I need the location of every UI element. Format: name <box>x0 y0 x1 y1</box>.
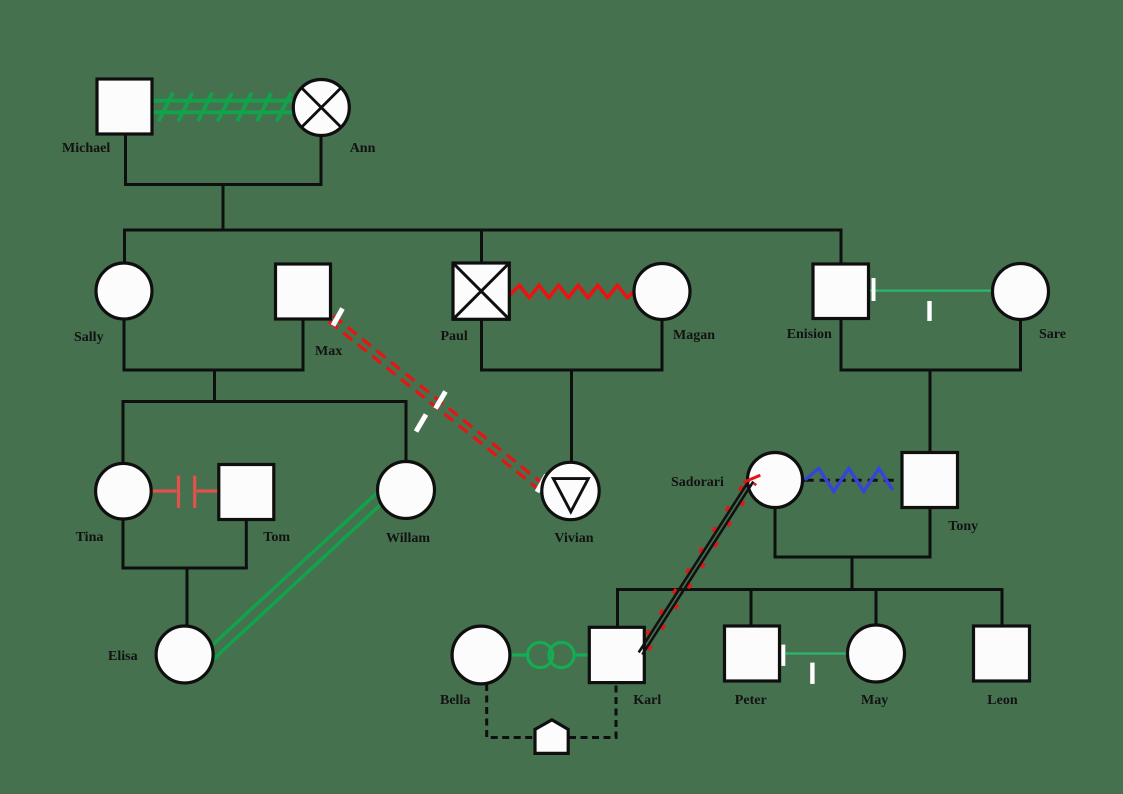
wire: drop to Willam <box>405 400 408 463</box>
relationship: Sadorari-Karl red dashed overlay <box>636 478 755 656</box>
separation white tick 1 <box>781 645 785 666</box>
person Tony (square) <box>902 453 958 508</box>
relationship: Michael-Ann green hatched band <box>152 93 295 122</box>
svg-text:Tony: Tony <box>948 519 978 534</box>
wire: Tom descent <box>245 520 248 568</box>
svg-text:Sally: Sally <box>74 330 104 345</box>
wire: drop to Paul <box>480 229 483 266</box>
wire: Michael+Ann couple bar <box>124 183 323 186</box>
wire: drop to Leon <box>1001 588 1004 627</box>
wire: adoption dashed Bella to pentagon <box>487 684 534 738</box>
wire: Max descent <box>302 319 305 370</box>
svg-text:Tina: Tina <box>76 530 104 545</box>
wire: Enision descent <box>840 319 843 370</box>
separation white tick 2 <box>810 663 814 684</box>
wire: Tina+Tom couple bar <box>122 567 248 570</box>
wire: drop to May <box>875 588 878 626</box>
wire: generation bar gen4 <box>618 588 1003 591</box>
person Magan (circle) <box>634 264 690 320</box>
svg-text:Enision: Enision <box>787 327 832 342</box>
pentagon adopted-child symbol <box>535 720 568 754</box>
wire: generation bar gen2 <box>125 229 842 232</box>
wire: drop to Enision <box>840 229 843 265</box>
relationship: Willam-Elisa green double line <box>206 492 386 660</box>
wire: Sally+Max family drop <box>213 369 216 404</box>
Sadorari-Karl red solid tip <box>744 475 761 482</box>
person Bella (circle) <box>452 626 510 684</box>
wire: generation bar Sally children <box>123 400 408 403</box>
wire: drop to Sally <box>123 229 126 265</box>
relationship: Sadorari-Tony blue zigzag <box>805 468 893 491</box>
svg-text:Karl: Karl <box>633 693 661 708</box>
person Max (square) <box>276 264 331 319</box>
person Leon (square) <box>974 626 1030 681</box>
wire: drop to Vivian <box>570 369 573 463</box>
svg-text:Leon: Leon <box>987 693 1018 708</box>
wire: drop to Tina <box>122 400 125 464</box>
wire: Sally+Max couple bar <box>123 369 305 372</box>
person Sare (circle) <box>993 264 1049 320</box>
svg-text:Ann: Ann <box>350 141 376 156</box>
person Elisa (circle) <box>156 626 213 683</box>
svg-text:Willam: Willam <box>386 531 430 546</box>
person Sally (circle) <box>96 263 152 319</box>
person Karl (square) <box>589 627 644 682</box>
wire: Sadorari+Tony family drop <box>851 556 854 592</box>
relationship: Tina-Tom cutoff symbol <box>152 476 219 508</box>
wire: Magan descent <box>661 320 664 371</box>
relationship: Sadorari-Tony black dashed line <box>804 479 898 482</box>
wire: Paul descent <box>480 319 483 370</box>
wire: drop to Peter <box>750 588 753 627</box>
person May (circle) <box>848 625 905 682</box>
divorce white ticks on Max-Vivian line <box>333 309 547 493</box>
relationship: Sadorari-Karl black double line <box>639 479 754 654</box>
person Peter (square) <box>725 626 780 681</box>
svg-text:Bella: Bella <box>440 693 470 708</box>
person Enision (square) <box>813 264 869 319</box>
wire: Enision+Sare couple bar <box>840 369 1023 372</box>
wire: drop to Tony <box>929 369 932 454</box>
wire: adoption dashed pentagon to Karl <box>569 683 616 738</box>
wire: Sadorari descent <box>774 508 777 558</box>
person Tom (square) <box>219 465 274 520</box>
relationship: Peter-May green line <box>780 652 848 654</box>
person Tina (circle) <box>96 463 152 519</box>
wire: Sare descent <box>1019 320 1022 371</box>
svg-text:Sare: Sare <box>1039 327 1066 342</box>
svg-text:Peter: Peter <box>735 693 767 708</box>
svg-text:Vivian: Vivian <box>554 531 593 546</box>
svg-text:Sadorari: Sadorari <box>671 475 724 490</box>
separation white tick 1 <box>872 278 876 301</box>
svg-text:Elisa: Elisa <box>108 649 138 664</box>
person Willam (circle) <box>378 462 435 519</box>
relationship: Bella-Karl green line <box>510 653 589 656</box>
svg-text:Tom: Tom <box>263 530 290 545</box>
person Michael (square) <box>97 79 152 134</box>
wire: Tony descent <box>929 508 932 558</box>
union rings <box>528 642 553 667</box>
svg-text:Paul: Paul <box>441 329 468 344</box>
svg-text:Magan: Magan <box>673 328 715 343</box>
person Vivian (pregnancy circle) <box>542 462 599 519</box>
wire: drop to Karl <box>616 588 619 628</box>
wire: Tina descent <box>122 519 125 568</box>
relationship: Enision-Sare green line <box>869 290 993 292</box>
wire: Paul+Magan couple bar <box>480 369 664 372</box>
relationship: Paul-Magan red zigzag <box>509 285 634 297</box>
wire: drop to Elisa <box>186 567 189 628</box>
relationship: Max-Vivian red dashed double line <box>329 316 544 490</box>
svg-text:May: May <box>861 693 888 708</box>
wire: Michael+Ann family drop <box>222 183 225 232</box>
person Paul (deceased square) <box>453 263 509 319</box>
person Ann (deceased circle) <box>293 80 349 136</box>
person Sadorari (circle) <box>748 453 803 508</box>
svg-text:Michael: Michael <box>62 141 110 156</box>
wire: Ann descent <box>320 134 323 185</box>
wire: Sadorari+Tony couple bar <box>774 556 932 559</box>
wire: Sally descent <box>123 319 126 370</box>
svg-text:Max: Max <box>315 344 342 359</box>
separation white tick 2 <box>927 301 931 321</box>
wire: Michael descent <box>124 134 127 185</box>
